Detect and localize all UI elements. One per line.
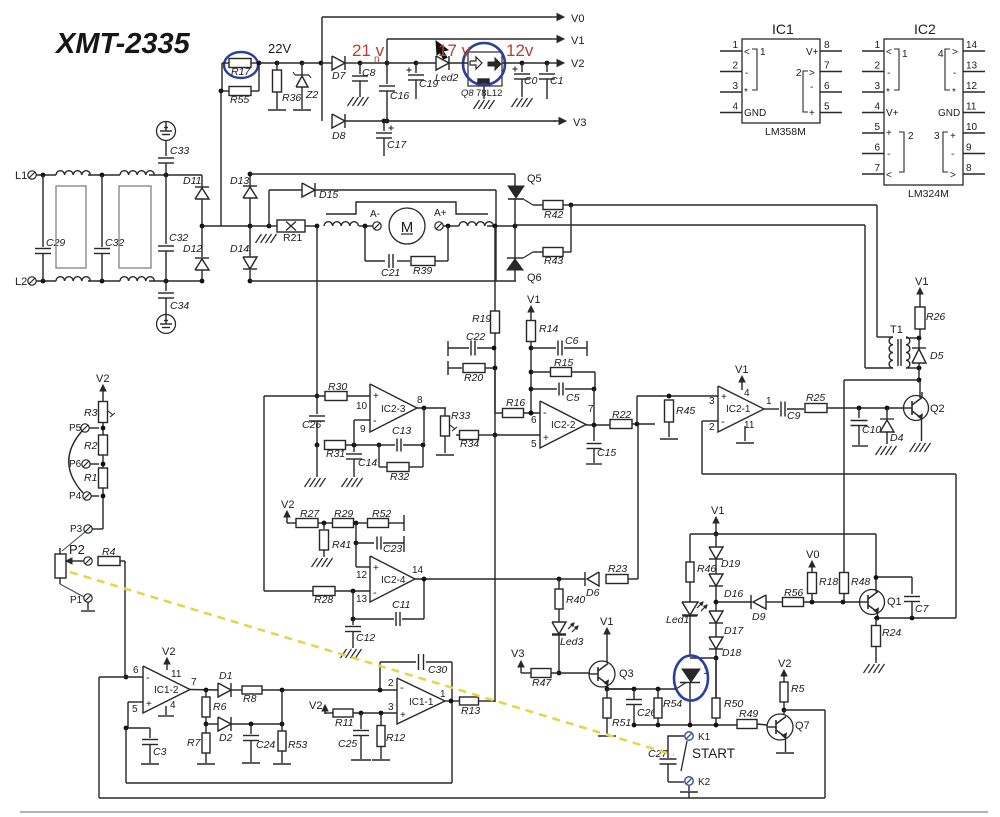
svg-text:*: * [952, 87, 956, 98]
svg-text:C6: C6 [565, 335, 579, 347]
svg-text:+: + [146, 699, 152, 710]
svg-text:R15: R15 [554, 357, 573, 369]
svg-text:D1: D1 [219, 670, 232, 682]
svg-text:<: < [744, 47, 750, 58]
svg-text:V0: V0 [806, 549, 819, 561]
svg-text:D19: D19 [721, 558, 740, 570]
svg-text:R28: R28 [314, 594, 333, 606]
svg-text:Q1: Q1 [887, 596, 902, 608]
svg-text:R20: R20 [464, 372, 483, 384]
svg-text:R43: R43 [544, 255, 563, 267]
svg-text:-: - [810, 82, 813, 93]
svg-text:R8: R8 [243, 693, 257, 705]
svg-text:R31: R31 [326, 448, 345, 460]
svg-text:V2: V2 [571, 58, 584, 70]
svg-text:D18: D18 [722, 647, 741, 659]
svg-text:V2: V2 [162, 646, 175, 658]
svg-text:+: + [950, 131, 956, 142]
svg-text:IC2-1: IC2-1 [726, 404, 751, 415]
svg-text:-: - [745, 68, 748, 79]
svg-text:-: - [953, 68, 956, 79]
svg-text:<: < [886, 47, 892, 58]
svg-text:V3: V3 [511, 648, 524, 660]
svg-text:8: 8 [417, 395, 423, 406]
svg-text:Q5: Q5 [527, 173, 542, 185]
svg-text:P4: P4 [69, 491, 82, 502]
svg-text:4: 4 [170, 700, 176, 711]
svg-text:2: 2 [732, 61, 738, 72]
svg-text:R42: R42 [544, 209, 563, 221]
svg-text:R13: R13 [461, 705, 480, 717]
svg-text:Led1: Led1 [666, 614, 689, 626]
svg-text:R18: R18 [819, 576, 838, 588]
svg-text:R54: R54 [663, 698, 682, 710]
svg-text:1: 1 [703, 665, 709, 677]
svg-text:C30: C30 [428, 664, 447, 676]
svg-text:11: 11 [171, 669, 182, 680]
svg-text:2: 2 [709, 422, 715, 433]
svg-text:13: 13 [966, 61, 978, 72]
svg-text:R40: R40 [566, 594, 585, 606]
svg-text:K1: K1 [698, 732, 711, 743]
svg-text:3: 3 [709, 396, 715, 407]
svg-text:R30: R30 [328, 381, 347, 393]
svg-text:C34: C34 [170, 300, 189, 312]
svg-text:12v: 12v [506, 41, 534, 60]
svg-text:R12: R12 [386, 732, 405, 744]
svg-text:6: 6 [874, 143, 880, 154]
svg-text:V3: V3 [573, 117, 586, 129]
svg-text:D16: D16 [724, 588, 743, 600]
svg-text:C14: C14 [358, 457, 377, 469]
svg-text:T1: T1 [890, 324, 903, 336]
svg-text:4: 4 [874, 102, 880, 113]
svg-text:R29: R29 [334, 508, 353, 520]
svg-text:R33: R33 [451, 410, 470, 422]
svg-text:D12: D12 [183, 243, 202, 255]
svg-text:3: 3 [934, 131, 940, 142]
svg-text:LM324M: LM324M [908, 188, 949, 200]
svg-text:D8: D8 [332, 130, 346, 142]
svg-text:C32: C32 [105, 237, 124, 249]
svg-text:D6: D6 [586, 587, 600, 599]
svg-text:K2: K2 [698, 777, 711, 788]
svg-text:R2: R2 [84, 440, 98, 452]
svg-text:10: 10 [356, 401, 368, 412]
svg-text:R56: R56 [784, 587, 803, 599]
svg-text:Q2: Q2 [930, 403, 945, 415]
svg-text:Led2: Led2 [435, 72, 459, 84]
svg-text:R51: R51 [612, 717, 631, 729]
svg-text:Led3: Led3 [560, 636, 584, 648]
svg-text:V1: V1 [735, 364, 748, 376]
svg-text:12: 12 [966, 81, 978, 92]
svg-text:-: - [543, 407, 547, 419]
svg-text:IC1-1: IC1-1 [409, 697, 434, 708]
svg-text:+: + [373, 563, 379, 574]
svg-text:IC1-2: IC1-2 [154, 685, 179, 696]
svg-text:C9: C9 [787, 410, 801, 422]
svg-text:L1: L1 [15, 170, 27, 182]
svg-text:IC2: IC2 [914, 21, 936, 37]
svg-text:Q3: Q3 [619, 668, 634, 680]
svg-text:-: - [887, 68, 890, 79]
svg-text:5: 5 [132, 704, 138, 715]
svg-text:C11: C11 [392, 599, 410, 611]
svg-text:R14: R14 [539, 323, 558, 335]
svg-text:4: 4 [732, 102, 738, 113]
svg-text:R48: R48 [851, 576, 870, 588]
svg-text:C24: C24 [256, 739, 275, 751]
svg-text:R41: R41 [332, 539, 351, 551]
svg-text:IC1: IC1 [772, 21, 794, 37]
svg-text:D4: D4 [890, 432, 904, 444]
svg-text:P2: P2 [69, 542, 85, 557]
svg-text:*: * [744, 87, 748, 98]
svg-text:XMT-2335: XMT-2335 [54, 28, 191, 60]
svg-text:D2: D2 [219, 732, 233, 744]
svg-text:C8: C8 [362, 67, 376, 79]
svg-text:3: 3 [388, 702, 394, 713]
svg-text:C10: C10 [862, 424, 881, 436]
svg-text:A-: A- [370, 209, 380, 220]
svg-text:R47: R47 [532, 677, 552, 689]
svg-text:R52: R52 [372, 508, 391, 520]
svg-text:R23: R23 [608, 563, 627, 575]
svg-text:R4: R4 [102, 546, 116, 558]
svg-text:R5: R5 [791, 683, 805, 695]
svg-text:6: 6 [133, 665, 139, 676]
svg-text:12: 12 [356, 570, 368, 581]
svg-text:2: 2 [908, 131, 914, 142]
svg-text:<: < [886, 170, 892, 181]
svg-text:8: 8 [966, 163, 972, 174]
svg-text:LM358M: LM358M [765, 126, 806, 138]
svg-text:GND: GND [744, 108, 766, 119]
svg-text:1: 1 [732, 40, 738, 51]
svg-text:22V: 22V [268, 41, 291, 56]
svg-text:6: 6 [531, 415, 537, 426]
svg-text:R27: R27 [300, 508, 320, 520]
svg-text:+: + [809, 108, 815, 119]
svg-text:R45: R45 [676, 405, 695, 417]
svg-text:1: 1 [766, 396, 772, 407]
svg-text:14: 14 [412, 565, 424, 576]
svg-text:R26: R26 [926, 311, 945, 323]
svg-text:+: + [721, 392, 727, 403]
svg-text:9: 9 [966, 143, 972, 154]
svg-text:2: 2 [874, 61, 880, 72]
svg-text:6: 6 [824, 81, 830, 92]
svg-text:C17: C17 [387, 139, 407, 151]
svg-text:Z2: Z2 [305, 89, 318, 101]
svg-text:8: 8 [824, 40, 830, 51]
svg-text:1: 1 [760, 47, 766, 58]
svg-text:V2: V2 [96, 373, 109, 385]
svg-text:1: 1 [902, 49, 908, 60]
svg-text:>: > [950, 170, 956, 181]
svg-text:7: 7 [191, 677, 197, 688]
svg-text:A+: A+ [434, 208, 447, 219]
svg-text:>: > [809, 68, 815, 79]
svg-text:C0: C0 [524, 75, 538, 87]
svg-text:7: 7 [824, 61, 830, 72]
svg-text:3: 3 [732, 81, 738, 92]
svg-text:*: * [886, 87, 890, 98]
svg-text:D11: D11 [183, 175, 201, 187]
svg-text:R11: R11 [335, 717, 353, 729]
svg-text:4: 4 [744, 388, 750, 399]
svg-text:R53: R53 [288, 739, 307, 751]
svg-text:-: - [373, 587, 377, 599]
svg-text:C1: C1 [550, 75, 563, 87]
svg-text:R46: R46 [697, 563, 716, 575]
svg-text:C16: C16 [390, 90, 409, 102]
svg-text:-: - [373, 415, 377, 427]
svg-text:V+: V+ [806, 47, 819, 58]
svg-text:R39: R39 [413, 265, 432, 277]
svg-text:1: 1 [874, 40, 880, 51]
svg-text:R19: R19 [472, 313, 491, 325]
svg-text:7: 7 [874, 163, 880, 174]
svg-text:START: START [692, 746, 735, 761]
svg-text:R6: R6 [213, 701, 227, 713]
svg-text:IC2-2: IC2-2 [551, 420, 576, 431]
svg-text:-: - [146, 672, 150, 684]
svg-text:9: 9 [360, 424, 366, 435]
svg-text:+: + [543, 433, 549, 444]
svg-text:R34: R34 [460, 438, 479, 450]
svg-text:+: + [373, 391, 379, 402]
svg-text:V1: V1 [600, 616, 613, 628]
svg-text:P5: P5 [69, 423, 82, 434]
svg-text:n: n [374, 54, 380, 65]
svg-text:C27: C27 [648, 748, 668, 760]
svg-text:C5: C5 [566, 392, 580, 404]
svg-text:V1: V1 [915, 276, 928, 288]
svg-text:V1: V1 [711, 505, 724, 517]
svg-text:D13: D13 [230, 175, 249, 187]
svg-text:-: - [951, 149, 954, 160]
svg-text:R1: R1 [84, 472, 97, 484]
svg-text:R16: R16 [506, 397, 525, 409]
svg-text:5: 5 [531, 439, 537, 450]
svg-text:V1: V1 [527, 294, 540, 306]
svg-text:5: 5 [824, 102, 830, 113]
svg-text:R22: R22 [612, 409, 631, 421]
svg-text:V2: V2 [778, 658, 791, 670]
svg-text:1: 1 [440, 689, 446, 700]
svg-text:10: 10 [966, 122, 978, 133]
svg-text:C22: C22 [466, 331, 485, 343]
svg-text:C15: C15 [597, 447, 616, 459]
svg-text:C12: C12 [356, 632, 375, 644]
svg-text:5: 5 [874, 122, 880, 133]
svg-text:C7: C7 [915, 603, 930, 615]
svg-text:D15: D15 [319, 189, 338, 201]
svg-text:2: 2 [796, 68, 802, 79]
svg-text:C26: C26 [302, 419, 321, 431]
svg-text:R55: R55 [230, 94, 249, 106]
svg-text:Q8: Q8 [461, 88, 474, 99]
svg-text:V+: V+ [886, 108, 899, 119]
svg-text:D17: D17 [724, 625, 744, 637]
svg-text:>: > [952, 47, 958, 58]
svg-text:R7: R7 [187, 737, 202, 749]
svg-text:D7: D7 [332, 70, 347, 82]
svg-text:R21: R21 [283, 232, 302, 244]
svg-text:-: - [887, 149, 890, 160]
svg-text:R32: R32 [390, 471, 409, 483]
svg-text:V2: V2 [309, 700, 322, 712]
svg-text:14: 14 [966, 40, 978, 51]
svg-text:4: 4 [938, 49, 944, 60]
svg-text:+: + [400, 710, 406, 721]
svg-text:D5: D5 [930, 350, 944, 362]
svg-text:Q7: Q7 [795, 720, 810, 732]
svg-text:C21: C21 [381, 267, 400, 279]
svg-text:7: 7 [588, 404, 594, 415]
svg-text:V2: V2 [281, 499, 294, 511]
svg-text:-: - [721, 416, 725, 428]
svg-text:R24: R24 [882, 627, 901, 639]
svg-text:78L12: 78L12 [476, 88, 502, 99]
svg-text:IC2-4: IC2-4 [381, 575, 406, 586]
svg-text:-: - [400, 682, 404, 694]
svg-text:V1: V1 [571, 35, 584, 47]
svg-text:P1: P1 [70, 595, 83, 606]
svg-text:IC2-3: IC2-3 [381, 404, 406, 415]
svg-text:GND: GND [938, 108, 960, 119]
svg-text:13: 13 [356, 594, 368, 605]
svg-text:21 v: 21 v [352, 41, 385, 60]
svg-text:R49: R49 [739, 708, 758, 720]
svg-text:R3: R3 [84, 407, 98, 419]
svg-text:R25: R25 [806, 392, 825, 404]
svg-text:D9: D9 [752, 611, 766, 623]
svg-text:C23: C23 [383, 543, 402, 555]
svg-text:R36: R36 [282, 92, 301, 104]
svg-text:C3: C3 [153, 746, 167, 758]
svg-text:11: 11 [966, 102, 977, 113]
svg-text:Q6: Q6 [527, 272, 542, 284]
svg-text:17 v: 17 v [438, 41, 471, 60]
svg-text:+: + [886, 128, 892, 139]
svg-text:P3: P3 [70, 524, 83, 535]
svg-text:C13: C13 [392, 425, 411, 437]
svg-text:C33: C33 [170, 145, 189, 157]
svg-text:2: 2 [388, 678, 394, 689]
svg-text:P6: P6 [69, 459, 82, 470]
svg-text:L2: L2 [15, 276, 27, 288]
svg-text:C25: C25 [338, 738, 357, 750]
svg-text:V0: V0 [571, 13, 584, 25]
svg-text:3: 3 [874, 81, 880, 92]
svg-text:D14: D14 [230, 243, 249, 255]
